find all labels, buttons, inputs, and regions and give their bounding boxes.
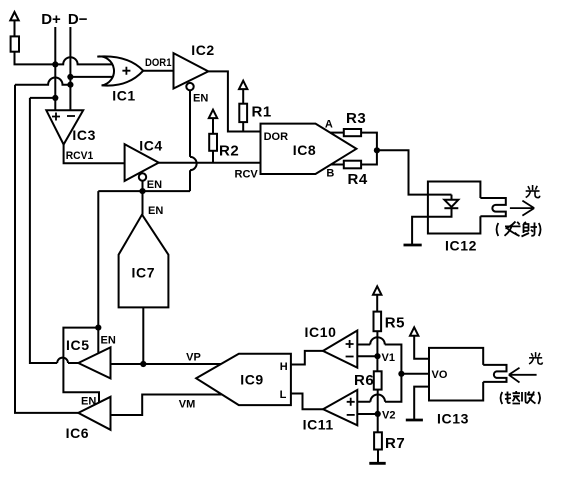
ground IC12 <box>404 244 422 247</box>
light receive arrow <box>509 368 537 383</box>
wire R5 to R6 through V1 <box>376 331 378 371</box>
IC1 plus mark <box>122 67 130 75</box>
power arrow top-left <box>10 12 18 36</box>
wire DOR1: IC1 out to IC2 in <box>143 70 173 72</box>
svg-text:IC10: IC10 <box>305 324 337 340</box>
optocoupler IC12 body <box>428 182 481 234</box>
svg-text:B: B <box>326 167 334 179</box>
IC11 plus mark <box>347 398 355 406</box>
svg-text:EN: EN <box>148 205 163 217</box>
wire IC11 minus input to V2 <box>357 413 377 415</box>
wire VO to IC13 <box>401 373 429 375</box>
IC11 minus mark <box>347 414 355 416</box>
wire from resistor to node at D+ (hop over D-) <box>15 52 113 65</box>
IC10 plus mark <box>346 340 354 348</box>
svg-text:R5: R5 <box>385 314 405 331</box>
wire EN to IC6 (around IC5) <box>63 328 99 403</box>
svg-text:IC9: IC9 <box>240 371 264 387</box>
svg-text:EN: EN <box>147 179 162 191</box>
resistor R5 <box>374 312 382 332</box>
wire rail2 to D+ <box>30 97 55 99</box>
buffer IC2 <box>174 53 209 88</box>
wire R3 to node <box>361 133 377 151</box>
wire VP <box>111 363 222 365</box>
EN line hop arc <box>190 157 197 170</box>
wire IC2 output to DOR net <box>208 71 260 131</box>
svg-text:IC7: IC7 <box>132 265 156 281</box>
resistor R2 <box>209 134 217 151</box>
svg-text:IC3: IC3 <box>72 127 96 143</box>
wire RCV: IC4 out to IC8 <box>159 162 261 164</box>
wire R6 to R7 through V2 <box>377 390 379 433</box>
wire left rail to D- (hop over D+) <box>15 78 70 85</box>
svg-text:IC6: IC6 <box>66 425 90 441</box>
D+ vertical wire <box>54 27 56 110</box>
svg-text:IC13: IC13 <box>437 410 469 426</box>
power arrow R1 <box>239 81 247 104</box>
svg-text:VP: VP <box>186 351 201 363</box>
wire IC4 EN to bus <box>142 181 144 191</box>
left rail 2 (D+ to IC5 output, hop at x63.4) <box>30 98 78 363</box>
IC12 fiber port <box>480 198 505 216</box>
light (guang) char for IC13 <box>529 352 542 364</box>
node V2 <box>375 411 381 417</box>
node on D- (rail tap) <box>67 82 73 88</box>
wire R2 bottom to RCV wire <box>212 151 214 163</box>
ground IC13 <box>406 387 429 420</box>
svg-text:VM: VM <box>179 398 196 410</box>
line driver IC8 <box>261 124 357 174</box>
node on D+ (rail tap) <box>52 95 58 101</box>
node VO <box>398 371 404 377</box>
svg-text:D+: D+ <box>41 11 61 28</box>
(jie shou) receive label <box>501 391 541 404</box>
svg-text:IC1: IC1 <box>112 88 136 104</box>
resistor R3 <box>344 129 361 136</box>
svg-text:IC4: IC4 <box>139 137 163 153</box>
wire IC10 plus input to VO (hop over R5 line) <box>357 345 401 374</box>
svg-text:IC12: IC12 <box>445 237 477 253</box>
svg-text:IC5: IC5 <box>66 337 90 353</box>
svg-text:D−: D− <box>68 11 88 28</box>
node R3/R4 <box>374 147 380 153</box>
svg-text:IC8: IC8 <box>293 142 317 158</box>
IC13 fiber port <box>483 365 506 382</box>
OR gate IC1 <box>97 56 143 85</box>
wire EN bus down-left to IC5/IC6 <box>97 191 99 328</box>
node on D- (OR input) <box>67 74 73 80</box>
svg-text:L: L <box>280 389 287 401</box>
node EN bus <box>139 188 145 194</box>
power arrow R5 <box>373 286 381 311</box>
svg-text:V2: V2 <box>382 409 395 421</box>
IC10 plus hop arc <box>370 337 385 344</box>
EN bus wire <box>98 190 190 192</box>
IC3 minus input mark <box>67 115 75 117</box>
svg-text:EN: EN <box>81 396 96 408</box>
photo receiver IC13 body <box>429 348 483 401</box>
resistor R1 <box>239 104 247 122</box>
buffer IC6 <box>78 397 110 430</box>
left rail 1 (D- to IC6 output) <box>15 85 78 413</box>
wire B pin to R4 <box>331 164 344 166</box>
resistor R6 <box>374 371 382 389</box>
svg-text:V1: V1 <box>382 352 395 364</box>
resistor R7 <box>374 432 382 449</box>
svg-text:R7: R7 <box>385 435 405 452</box>
svg-text:A: A <box>325 119 333 131</box>
svg-text:IC2: IC2 <box>191 42 215 58</box>
D- vertical wire <box>69 27 71 110</box>
svg-text:H: H <box>280 361 288 373</box>
svg-text:R3: R3 <box>346 110 366 127</box>
svg-text:IC11: IC11 <box>303 416 334 432</box>
node VP/IC7 <box>140 361 146 367</box>
resistor R4 <box>344 161 361 169</box>
IC10 minus mark <box>346 356 354 358</box>
wire IC10 minus input to V1 <box>357 355 377 357</box>
buffer IC4 <box>125 144 159 181</box>
IC11 plus hop arc <box>370 395 385 402</box>
wire IC9 L to IC11 output <box>291 394 323 410</box>
light emit arrow <box>510 201 534 216</box>
op-amp IC3 <box>46 110 83 144</box>
wire VM <box>111 395 223 416</box>
wire IC9 H to IC10 output <box>291 351 323 365</box>
ground R7 <box>369 450 385 464</box>
svg-text:R6: R6 <box>354 372 374 389</box>
wire IC7 output to VP <box>142 307 144 364</box>
svg-text:EN: EN <box>101 334 116 346</box>
svg-text:VO: VO <box>432 369 448 381</box>
comparator IC10 <box>323 331 357 368</box>
buffer IC5 <box>78 347 110 378</box>
wire A pin to R3 <box>330 132 344 134</box>
IC12 LED <box>412 195 458 244</box>
node: D+ to OR input <box>52 61 58 67</box>
receiver logic IC9 <box>196 354 291 405</box>
comparator IC11 <box>323 390 357 425</box>
wire D- to OR gate lower input <box>70 76 112 78</box>
power arrow IC13 <box>410 327 429 358</box>
rail 2 hop arc <box>57 358 68 363</box>
resistor (unlabeled, top-left) <box>11 36 19 51</box>
IC2 enable bubble <box>186 83 193 90</box>
monostable IC7 <box>119 215 169 308</box>
node V1 <box>374 353 380 359</box>
wire node to IC12 LED <box>377 150 452 194</box>
(fa she) transmit label <box>497 222 541 237</box>
IC3 plus input mark <box>52 113 60 121</box>
wire IC11 plus input to VO (hop over R6 line) <box>357 374 401 402</box>
wire IC2 EN down to EN bus (hop over RCV wire) <box>189 90 191 191</box>
svg-text:RCV: RCV <box>235 168 259 180</box>
svg-text:DOR1: DOR1 <box>145 57 172 69</box>
power arrow R2 <box>209 110 217 134</box>
wire EN to IC5 <box>97 328 99 353</box>
wire EN bus to IC7 <box>142 191 144 215</box>
node EN split <box>95 325 101 331</box>
svg-text:R2: R2 <box>219 143 239 160</box>
svg-text:RCV1: RCV1 <box>66 150 94 162</box>
svg-text:R1: R1 <box>252 104 272 121</box>
light (guang) char for IC12 <box>526 185 540 198</box>
wire IC3 output to IC4 input <box>64 145 125 164</box>
svg-text:R4: R4 <box>348 171 368 188</box>
wire R1 bottom to DOR net <box>242 122 244 131</box>
wire R4 to node <box>361 150 377 164</box>
IC4 enable bubble <box>139 173 146 180</box>
svg-text:EN: EN <box>193 93 208 105</box>
svg-text:DOR: DOR <box>264 131 289 143</box>
